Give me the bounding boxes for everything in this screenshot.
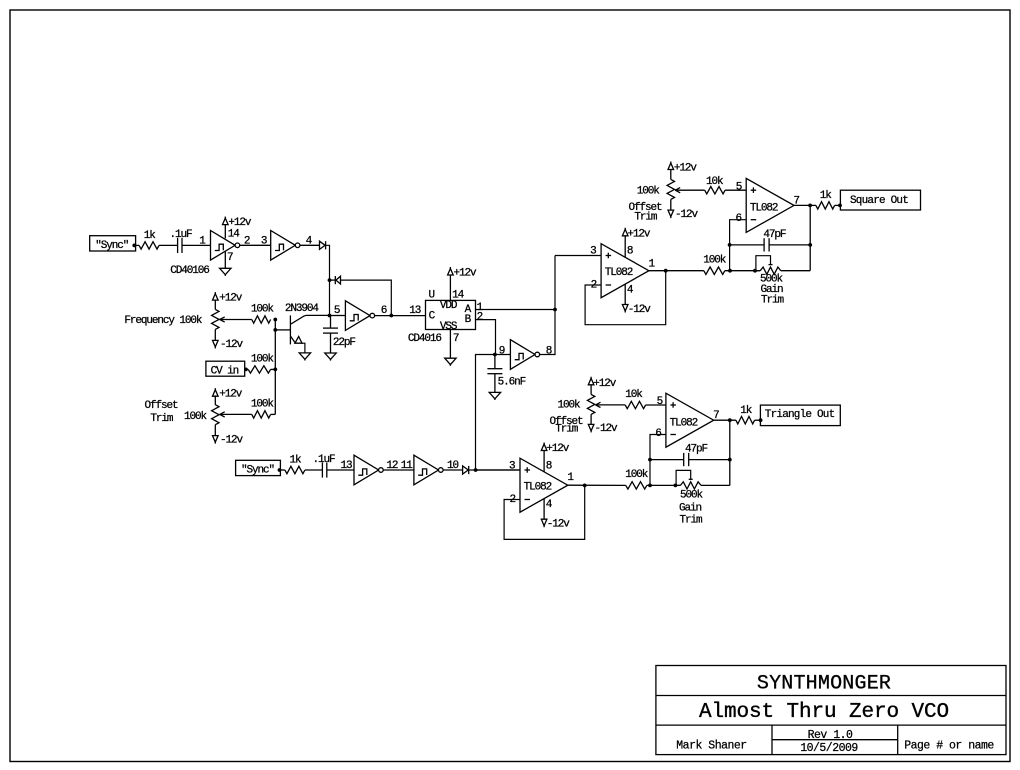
wire CD4016 pin 2 B output (476, 320, 496, 355)
junction at U1C output (389, 314, 393, 318)
svg-text:2: 2 (244, 236, 250, 248)
title block vertical divider left (771, 725, 773, 755)
pin 8 +12v supply of U3A (624, 236, 626, 257)
power +12v at triangle Offset pot (588, 378, 594, 385)
wire 1k to .1uF (305, 469, 323, 471)
svg-text:2N3904: 2N3904 (285, 303, 320, 315)
resistor 100k (triangle gain input) (626, 482, 647, 489)
title block rev/date divider (772, 739, 898, 741)
svg-text:10k: 10k (625, 389, 643, 401)
pin 14 +12v supply of CD40106 (224, 225, 226, 239)
wire .1uF to U1 pin 1 (182, 244, 211, 246)
svg-text:VSS: VSS (440, 321, 458, 333)
junction at diode feedback node (328, 278, 332, 282)
resistor 1k (top sync) (139, 242, 159, 249)
capacitor 47pF (square) (730, 244, 765, 246)
svg-text:CD40106: CD40106 (170, 265, 209, 277)
pin 7 ground of CD40106 (224, 252, 226, 269)
svg-text:Trim: Trim (555, 424, 579, 436)
resistor 1k (bottom sync) (285, 466, 305, 473)
pin 14 +12v supply of CD4016 (449, 275, 451, 300)
svg-text:100k: 100k (184, 411, 208, 423)
junction 500k left terminal (753, 269, 757, 273)
wire Frequency pot wiper (220, 319, 252, 321)
svg-text:1: 1 (649, 258, 656, 270)
wire U4B output (714, 419, 736, 421)
wire 1k to C .1uF (159, 244, 178, 246)
junction at U1C input node (328, 314, 332, 318)
svg-text:Almost Thru Zero VCO: Almost Thru Zero VCO (699, 701, 949, 724)
wire U4A feedback loop (504, 485, 585, 539)
junction at Sync box output (132, 244, 136, 248)
svg-text:TL082: TL082 (750, 203, 778, 215)
capacitor 5.6nF (494, 355, 496, 369)
svg-text:14: 14 (228, 229, 241, 241)
svg-text:Trim: Trim (150, 413, 174, 425)
svg-text:100k: 100k (703, 254, 727, 266)
resistor 10k (triangle) (625, 401, 645, 408)
svg-text:-12v: -12v (595, 423, 619, 435)
inverter U1F CD40106 pins 13-12 (354, 455, 379, 485)
svg-text:7: 7 (453, 333, 459, 345)
svg-text:+12v: +12v (674, 163, 698, 175)
junction gain network left (728, 269, 732, 273)
node Triangle Out box (760, 405, 840, 426)
inverter U1C CD40106 pins 5-6 (345, 301, 370, 331)
inverter U1A CD40106 pins 1-2 (211, 231, 236, 261)
capacitor 22pF (timing) (330, 316, 332, 329)
svg-text:"Sync": "Sync" (95, 240, 129, 252)
wire U3B output (794, 204, 816, 206)
wire bottom Sync to 1k (280, 469, 285, 471)
svg-text:500k: 500k (680, 490, 704, 502)
wire U3A feedback loop (585, 271, 666, 325)
svg-text:-12v: -12v (220, 339, 244, 351)
wire to Q1 base (275, 329, 290, 331)
resistor 1k (square out) (816, 202, 835, 209)
wire summing node vertical (274, 320, 276, 415)
wire CD4016 pin 1 A output (476, 309, 556, 311)
resistor 100k (square gain input) (704, 267, 725, 274)
svg-text:1k: 1k (740, 405, 753, 417)
wire feedback vertical left (pin6) (730, 220, 747, 271)
svg-text:100k: 100k (251, 399, 275, 411)
svg-text:-12v: -12v (220, 434, 244, 446)
svg-text:Gain: Gain (679, 502, 702, 514)
svg-text:100k: 100k (251, 304, 275, 316)
junction triangle 47pF left (648, 458, 652, 462)
svg-text:+12v: +12v (627, 228, 651, 240)
svg-text:9: 9 (499, 345, 505, 357)
svg-text:8: 8 (627, 246, 633, 258)
junction at pin 9 node (493, 353, 497, 357)
op-amp U3A TL082 (square comparator) (601, 244, 649, 298)
wire lower sync to U4A + input (476, 469, 520, 471)
power -12v at square Offset pot (670, 199, 672, 210)
wire offset resistor to summing node (271, 413, 276, 415)
junction triangle 47pF right (728, 458, 732, 462)
svg-text:+12v: +12v (593, 378, 617, 390)
pin 7 ground of CD4016 (449, 330, 451, 359)
wire input Offset pot wiper (220, 413, 252, 415)
wire triangle feedback vertical (pin6) (650, 435, 666, 486)
potentiometer 500k Gain Trim (triangle) (680, 482, 701, 489)
svg-text:47pF: 47pF (685, 444, 708, 456)
wire 500k to output rail (781, 270, 810, 272)
junction at lower sync node (474, 468, 478, 472)
wire square Offset pot wiper (675, 189, 705, 191)
wire U1F out to U1D in, pins 12-11 (383, 469, 414, 471)
power +12v at Frequency pot (213, 294, 219, 301)
pin 4 -12v supply of U4A (543, 499, 545, 519)
svg-text:100k: 100k (558, 400, 582, 412)
svg-text:-12v: -12v (547, 519, 571, 531)
op-amp U3B TL082 (square output) (746, 178, 794, 232)
power +12v at input Offset pot (213, 390, 219, 397)
ground at Q1 emitter (299, 353, 310, 359)
junction U3B output (808, 204, 812, 208)
node Sync input (top) box (90, 236, 136, 251)
svg-text:VDD: VDD (440, 300, 458, 312)
svg-text:+12v: +12v (219, 292, 243, 304)
wire D1 to node, corner down (326, 245, 330, 315)
power -12v at input Offset pot (214, 425, 216, 436)
wire U3A output (649, 270, 704, 272)
svg-text:Mark Shaner: Mark Shaner (676, 740, 746, 753)
svg-text:-12v: -12v (628, 304, 652, 316)
svg-text:1k: 1k (820, 190, 833, 202)
svg-text:C: C (429, 311, 436, 323)
pin 8 +12v supply of U4A (543, 451, 545, 473)
svg-text:+12v: +12v (228, 217, 252, 229)
junction triangle 500k left terminal (674, 484, 678, 488)
junction frequency node (273, 318, 277, 322)
junction CV node (273, 368, 277, 372)
svg-text:12: 12 (386, 460, 398, 472)
potentiometer Offset Trim 100k (input) (214, 395, 216, 404)
junction triangle gain left (648, 484, 652, 488)
power +12v at square Offset pot (668, 163, 674, 170)
wire 10k to U4B + input (646, 404, 666, 406)
svg-text:13: 13 (409, 305, 421, 317)
svg-text:5: 5 (334, 305, 340, 317)
wire 100k to triangle gain network (647, 484, 681, 486)
resistor 100k (offset to node) (252, 411, 271, 418)
resistor 100k (frequency to base) (252, 316, 271, 323)
op-amp U4A TL082 (triangle stage 1) (520, 458, 568, 512)
ground below CD4016 (445, 358, 456, 364)
IC U2 CD4016 box (426, 300, 476, 329)
svg-text:6: 6 (736, 213, 742, 225)
pin 4 -12v supply of U3A (624, 284, 626, 304)
svg-text:Frequency 100k: Frequency 100k (124, 315, 203, 327)
junction at bottom Sync output (278, 468, 282, 472)
svg-text:TL082: TL082 (524, 482, 552, 494)
power -12v at Frequency pot (214, 329, 216, 340)
title block divider line 1 (656, 695, 1006, 697)
ground below 5.6nF (489, 392, 500, 398)
inverter U1E CD40106 pins 9-8 (510, 340, 535, 370)
svg-text:8: 8 (546, 460, 552, 472)
wire 10k to U3B + input (725, 189, 746, 191)
svg-text:8: 8 (546, 345, 552, 357)
svg-text:CD4016: CD4016 (408, 333, 442, 345)
junction at Triangle Out box (759, 418, 763, 422)
diode D2 (feedback, pointing left) (330, 279, 336, 281)
wire U1E pin 8 output up to A node (540, 256, 555, 355)
svg-text:Triangle Out: Triangle Out (765, 409, 835, 421)
svg-text:47pF: 47pF (763, 229, 786, 241)
svg-text:5: 5 (736, 181, 742, 193)
junction base node (273, 328, 277, 332)
inverter U1D CD40106 pins 11-10 (414, 455, 439, 485)
wire U1D pin 10 to diode D3 (443, 469, 463, 471)
svg-text:+12v: +12v (219, 388, 243, 400)
wire triangle output rail vertical (729, 420, 731, 485)
svg-text:.1uF: .1uF (313, 454, 336, 466)
svg-text:1k: 1k (144, 230, 157, 242)
diode D1 (sync coupling top) (320, 241, 326, 249)
svg-text:Square Out: Square Out (850, 195, 908, 207)
resistor 1k (triangle out) (736, 417, 755, 424)
svg-text:7: 7 (227, 252, 233, 264)
potentiometer 500k Gain Trim (square) (760, 267, 781, 274)
svg-text:Offset: Offset (145, 400, 179, 412)
wire triangle 500k to output rail (701, 484, 730, 486)
power -12v at triangle Offset pot (590, 414, 592, 424)
svg-text:Page # or name: Page # or name (904, 740, 994, 753)
wire triangle Offset pot wiper (596, 404, 626, 406)
svg-text:100k: 100k (637, 186, 661, 198)
wire U4A output (568, 484, 626, 486)
svg-text:6: 6 (381, 305, 387, 317)
svg-text:1k: 1k (290, 455, 303, 467)
junction U3A output (664, 269, 668, 273)
svg-text:TL082: TL082 (605, 267, 633, 279)
wire node to U1C pin 5 (330, 315, 346, 317)
svg-text:SYNTHMONGER: SYNTHMONGER (757, 673, 891, 696)
svg-text:B: B (465, 314, 472, 326)
svg-text:5.6nF: 5.6nF (498, 377, 526, 389)
junction U4A output (583, 484, 587, 488)
svg-text:CV in: CV in (211, 366, 239, 378)
svg-text:Trim: Trim (761, 295, 785, 307)
potentiometer Offset Trim 100k (square) (670, 169, 672, 179)
title block outer box (656, 666, 1006, 755)
node Square Out box (840, 190, 920, 210)
svg-text:1: 1 (567, 472, 574, 484)
wire A node to U3A + input (555, 255, 601, 257)
ground below U1A pin 7 (220, 268, 231, 274)
potentiometer Offset Trim 100k (triangle) (590, 385, 592, 395)
transistor Q1 2N3904 (289, 315, 291, 344)
svg-text:+12v: +12v (546, 443, 570, 455)
capacitor .1uF (bottom sync) (321, 462, 323, 477)
diode D3 (sync coupling bottom) (463, 466, 469, 474)
svg-text:13: 13 (341, 460, 353, 472)
svg-text:100k: 100k (251, 353, 275, 365)
potentiometer Frequency 100k (214, 300, 216, 309)
svg-text:"Sync": "Sync" (241, 465, 275, 477)
junction 47pF left (728, 243, 732, 247)
wire 1k to Square Out box (835, 204, 841, 206)
junction 47pF right (808, 243, 812, 247)
op-amp U4B TL082 (triangle output) (666, 393, 714, 447)
node CV in box (206, 361, 245, 376)
svg-text:100k: 100k (625, 469, 649, 481)
svg-text:4: 4 (627, 284, 634, 296)
junction at CV in output (244, 368, 248, 372)
junction at A output node (553, 308, 557, 312)
wire D3 to U4A input (469, 469, 520, 471)
svg-text:Trim: Trim (634, 212, 658, 224)
svg-text:4: 4 (546, 499, 553, 511)
inverter U1B CD40106 pins 3-4 (271, 231, 296, 261)
svg-text:10/5/2009: 10/5/2009 (800, 742, 858, 755)
wire U1C pin 6 to CD4016 pin 13 (375, 315, 426, 317)
svg-text:3: 3 (261, 236, 267, 248)
node Sync input (bottom) box (236, 460, 281, 475)
svg-text:TL082: TL082 (670, 417, 698, 429)
resistor 100k (CV in) (246, 368, 248, 370)
svg-text:5: 5 (657, 396, 663, 408)
svg-text:Trim: Trim (680, 515, 704, 527)
wire Sync box to R 1k (134, 244, 139, 246)
wire 100k to gain network (725, 270, 760, 272)
title block vertical divider right (897, 725, 899, 755)
svg-text:10: 10 (447, 460, 459, 472)
wire output rail vertical (square) (809, 205, 811, 270)
svg-text:.1uF: .1uF (170, 229, 193, 241)
svg-text:10k: 10k (706, 176, 724, 188)
wire 1k to Triangle Out box (755, 419, 761, 421)
svg-text:6: 6 (655, 428, 661, 440)
svg-text:2: 2 (477, 311, 483, 323)
junction at Square Out box (838, 204, 842, 208)
wire U1B pin 4 to diode D1 (300, 244, 320, 246)
wire .1uF to U1F pin 13 (327, 469, 354, 471)
svg-text:+12v: +12v (454, 268, 478, 280)
ground below 22pF (325, 353, 336, 359)
svg-text:U: U (429, 289, 435, 301)
junction U4B output (728, 418, 732, 422)
svg-text:-12v: -12v (675, 209, 699, 221)
resistor 10k (square) (705, 187, 725, 194)
capacitor 47pF (triangle) (650, 459, 684, 461)
wire D2 to U1C output feedback (341, 280, 392, 315)
svg-text:11: 11 (401, 460, 414, 472)
capacitor .1uF (top sync) (177, 238, 179, 253)
title block divider line 2 (656, 724, 1006, 726)
wire pin 9 line to lower chain (476, 355, 511, 471)
svg-text:Rev 1.0: Rev 1.0 (808, 729, 853, 742)
wire U1A out to U1B in, pins 2-3 (240, 244, 271, 246)
svg-text:22pF: 22pF (333, 337, 356, 349)
